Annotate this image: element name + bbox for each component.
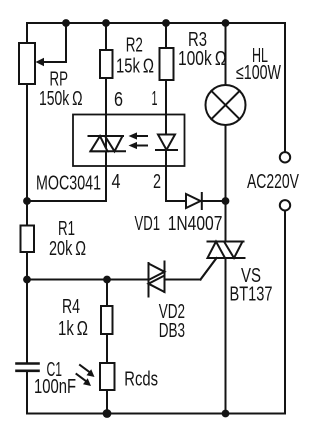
resistor R2 (100, 50, 113, 78)
node dot pin4 left (23, 197, 31, 205)
svg-text:DB3: DB3 (159, 320, 185, 342)
wire left rail below C1 (26, 372, 28, 414)
wire node bus to diac (27, 279, 149, 281)
opto LED D1 (158, 135, 175, 150)
lamp HL (206, 85, 246, 125)
svg-text:Rcds: Rcds (124, 369, 158, 391)
node dot R4 top (103, 276, 111, 284)
node dot R2 top (102, 19, 110, 27)
wire left rail middle (26, 84, 28, 226)
RP wiper arrow (43, 61, 66, 63)
wire opto triac vertical (105, 115, 107, 167)
wire R3 to pin 1 (165, 80, 167, 115)
wire triac anode down (225, 258, 227, 414)
Rcds light arrow upper (80, 365, 90, 373)
light arrow lower (136, 145, 147, 147)
node dot wiper (62, 19, 70, 27)
wire VD1 anode (166, 200, 186, 202)
wire triac gate diagonal (201, 258, 217, 280)
opto triac symbol (89, 135, 124, 137)
wire pin 2 lead (165, 166, 167, 201)
wire R2 to pin 6 (105, 78, 107, 115)
svg-text:R4: R4 (62, 296, 80, 318)
triac VS (208, 241, 244, 243)
wire R4 to Rcds (106, 334, 108, 363)
resistor R3 (160, 48, 174, 80)
node dot left bus (23, 276, 31, 284)
svg-text:1N4007: 1N4007 (168, 213, 223, 235)
svg-text:AC220V: AC220V (247, 171, 299, 193)
svg-text:1k Ω: 1k Ω (58, 318, 88, 340)
diac VD2 DB3 (148, 263, 150, 297)
svg-text:15k Ω: 15k Ω (116, 56, 154, 78)
wire right rail upper (284, 23, 286, 152)
potentiometer RP (19, 43, 35, 84)
svg-text:2: 2 (153, 171, 161, 193)
wire bottom bus (27, 413, 285, 415)
wire R2 top lead (105, 23, 107, 50)
Rcds light arrow lower (77, 374, 87, 382)
wire lamp to VD1 node (225, 125, 227, 201)
photoresistor Rcds (100, 363, 115, 390)
wire Rcds bottom lead (106, 390, 108, 414)
wire left rail below R1 (26, 252, 28, 362)
svg-text:100nF: 100nF (34, 376, 76, 398)
svg-text:R2: R2 (126, 35, 143, 57)
diode VD1 (186, 194, 201, 208)
node dot VD1 cathode (222, 197, 230, 205)
wire R4 top lead (106, 280, 108, 307)
node dot triac bottom (222, 410, 230, 418)
wire R3 top lead (165, 23, 167, 48)
AC terminal lower (280, 200, 290, 210)
node dot Rcds bottom (103, 409, 112, 418)
wire VD1 cathode (202, 200, 226, 202)
wire top bus (27, 22, 285, 24)
wire diac to gate (165, 279, 201, 281)
resistor R4 (101, 306, 113, 334)
svg-text:100k Ω: 100k Ω (178, 48, 227, 70)
svg-text:6: 6 (114, 89, 123, 111)
light arrow upper (136, 135, 147, 137)
svg-text:20k Ω: 20k Ω (49, 238, 86, 260)
capacitor C1 (17, 362, 39, 365)
wire RP wiper riser (65, 23, 67, 62)
svg-text:150k Ω: 150k Ω (39, 88, 83, 110)
node dot R3 top (162, 19, 170, 27)
svg-text:1: 1 (152, 88, 158, 110)
svg-text:MOC3041: MOC3041 (36, 173, 101, 195)
wire right rail lower (284, 210, 286, 413)
wire pin 4 lead (27, 166, 106, 201)
opto LED vertical (165, 115, 167, 167)
wire lamp top lead (225, 23, 227, 85)
wire left rail RP top lead (26, 23, 28, 43)
wire VD1 node to triac (225, 201, 227, 242)
svg-text:4: 4 (112, 171, 121, 193)
resistor R1 (21, 226, 35, 253)
AC terminal upper (280, 152, 290, 162)
svg-text:≤100W: ≤100W (236, 62, 281, 84)
node dot lamp top (222, 19, 230, 27)
optocoupler U1 MOC3041 box (73, 115, 185, 167)
svg-text:R1: R1 (58, 218, 75, 240)
svg-text:VD1: VD1 (135, 213, 161, 235)
svg-text:BT137: BT137 (230, 284, 273, 306)
